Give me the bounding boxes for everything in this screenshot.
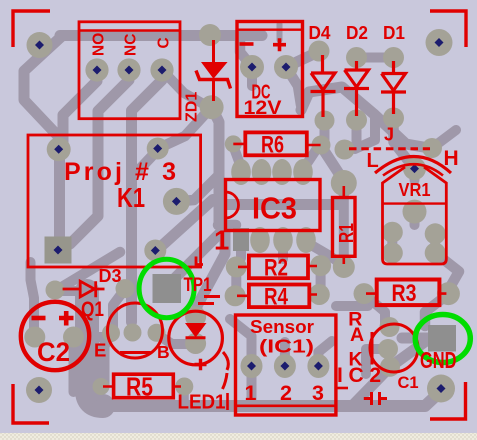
svg-text:C2: C2: [37, 337, 70, 367]
svg-text:ZD1: ZD1: [184, 92, 201, 122]
svg-text:LED1: LED1: [178, 392, 226, 414]
svg-text:D2: D2: [346, 23, 368, 43]
svg-text:NO: NO: [91, 33, 108, 56]
svg-text:1: 1: [245, 381, 257, 405]
svg-text:Sensor: Sensor: [250, 316, 314, 337]
svg-text:D4: D4: [309, 23, 331, 43]
svg-text:(IC1): (IC1): [259, 336, 314, 357]
svg-text:R6: R6: [261, 132, 284, 159]
svg-text:Q1: Q1: [81, 298, 104, 321]
svg-text:R4: R4: [264, 284, 289, 311]
svg-text:1: 1: [214, 225, 229, 256]
svg-text:K1: K1: [117, 182, 145, 213]
svg-text:C1: C1: [398, 374, 419, 392]
svg-text:R3: R3: [392, 280, 417, 307]
svg-text:C: C: [156, 37, 173, 48]
svg-text:H: H: [444, 147, 459, 170]
svg-text:R2: R2: [264, 255, 288, 282]
svg-text:NC: NC: [123, 34, 140, 56]
svg-text:VR1: VR1: [399, 180, 431, 200]
svg-text:D3: D3: [99, 266, 122, 286]
svg-text:B: B: [157, 342, 170, 362]
svg-text:R5: R5: [126, 372, 153, 402]
svg-text:L: L: [367, 150, 379, 172]
svg-text:R1: R1: [336, 223, 358, 243]
svg-text:GND: GND: [420, 347, 457, 373]
svg-text:E: E: [94, 340, 106, 361]
svg-text:12V: 12V: [244, 97, 282, 119]
svg-text:2: 2: [280, 381, 292, 405]
svg-text:A: A: [350, 324, 364, 346]
svg-text:TP1: TP1: [184, 274, 212, 296]
svg-text:J: J: [384, 125, 394, 145]
svg-text:D1: D1: [383, 23, 405, 43]
svg-text:IC3: IC3: [252, 191, 297, 226]
svg-text:3: 3: [312, 381, 324, 405]
